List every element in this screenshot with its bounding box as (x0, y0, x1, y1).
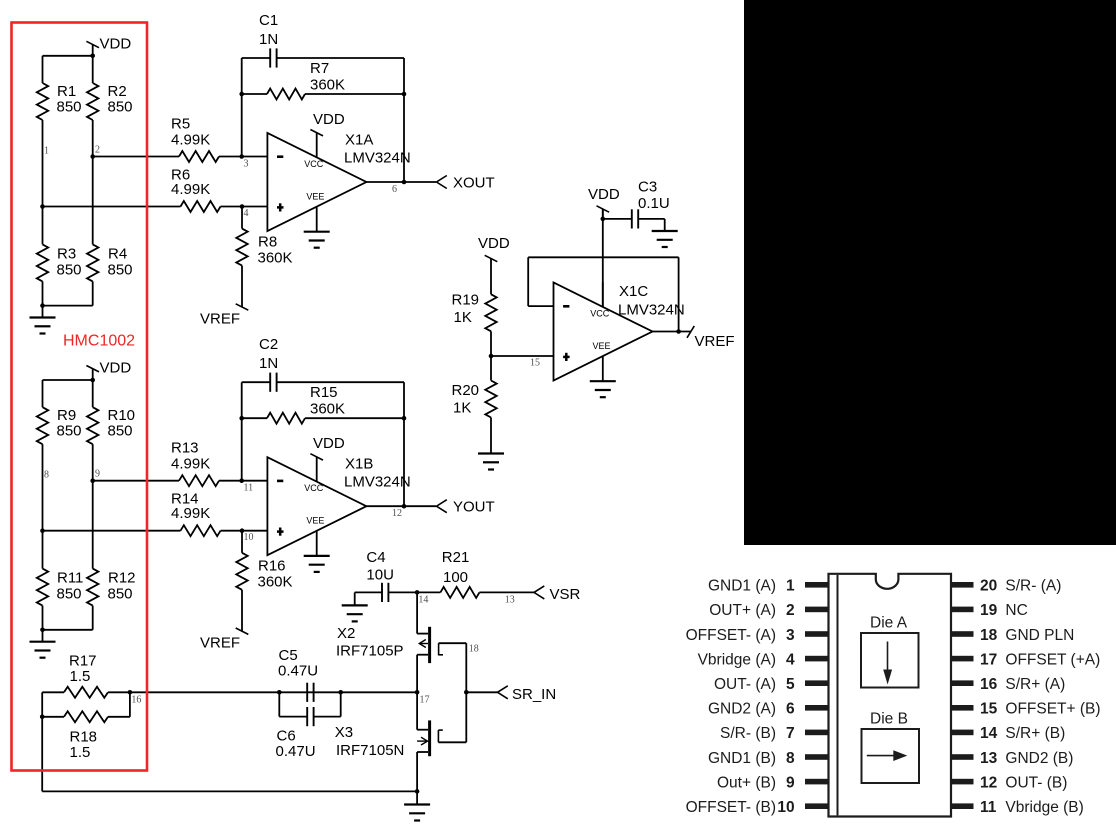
svg-text:9: 9 (786, 774, 795, 791)
svg-text:1K: 1K (453, 400, 471, 417)
svg-text:13: 13 (505, 595, 515, 606)
svg-text:14: 14 (418, 595, 428, 606)
svg-text:LMV324N: LMV324N (344, 474, 411, 491)
svg-text:8: 8 (786, 750, 795, 767)
svg-text:3: 3 (786, 627, 795, 644)
svg-text:5: 5 (786, 676, 795, 693)
svg-text:R12: R12 (108, 570, 136, 587)
svg-text:20: 20 (980, 578, 997, 595)
svg-text:X1B: X1B (345, 456, 373, 473)
svg-text:VREF: VREF (200, 311, 240, 328)
svg-text:4.99K: 4.99K (171, 181, 210, 198)
svg-text:VCC: VCC (304, 483, 324, 493)
svg-text:VEE: VEE (306, 516, 324, 526)
svg-text:15: 15 (980, 701, 998, 718)
svg-text:Out+ (B): Out+ (B) (717, 774, 776, 791)
svg-text:XOUT: XOUT (453, 175, 495, 192)
svg-text:2: 2 (95, 145, 100, 156)
svg-text:1: 1 (44, 146, 49, 157)
svg-text:14: 14 (980, 725, 998, 742)
svg-text:1.5: 1.5 (70, 668, 91, 685)
svg-text:R7: R7 (310, 60, 329, 77)
svg-text:X2: X2 (337, 625, 355, 642)
svg-text:10: 10 (244, 532, 254, 543)
svg-text:S/R+ (A): S/R+ (A) (1005, 676, 1065, 693)
svg-text:VSR: VSR (550, 586, 581, 603)
svg-text:GND1 (A): GND1 (A) (708, 578, 776, 595)
svg-text:11: 11 (244, 483, 254, 494)
svg-text:R10: R10 (108, 407, 136, 424)
svg-text:12: 12 (980, 774, 997, 791)
svg-text:C5: C5 (279, 647, 298, 664)
svg-text:VEE: VEE (593, 341, 611, 351)
svg-text:360K: 360K (310, 77, 345, 94)
svg-text:18: 18 (469, 644, 479, 655)
svg-text:850: 850 (57, 99, 82, 116)
svg-text:19: 19 (980, 602, 998, 619)
svg-text:13: 13 (980, 750, 998, 767)
svg-text:17: 17 (980, 651, 997, 668)
svg-text:R9: R9 (57, 407, 76, 424)
svg-text:850: 850 (108, 99, 133, 116)
svg-text:R8: R8 (258, 234, 277, 251)
svg-text:S/R- (B): S/R- (B) (720, 725, 776, 742)
svg-text:6: 6 (392, 184, 397, 195)
svg-text:C1: C1 (259, 12, 278, 29)
svg-text:C2: C2 (259, 336, 278, 353)
svg-text:4.99K: 4.99K (171, 132, 210, 149)
svg-text:GND2 (B): GND2 (B) (1005, 750, 1073, 767)
svg-text:0.47U: 0.47U (276, 743, 316, 760)
svg-text:VDD: VDD (100, 36, 132, 53)
svg-text:4.99K: 4.99K (171, 505, 210, 522)
svg-text:X3: X3 (335, 724, 353, 741)
svg-text:17: 17 (420, 695, 430, 706)
svg-text:0.47U: 0.47U (278, 663, 318, 680)
svg-text:360K: 360K (310, 401, 345, 418)
svg-text:X1A: X1A (345, 132, 373, 149)
svg-text:OUT- (A): OUT- (A) (714, 676, 776, 693)
svg-text:1N: 1N (259, 31, 278, 48)
svg-text:11: 11 (980, 799, 997, 816)
svg-text:R2: R2 (108, 83, 127, 100)
svg-text:C3: C3 (638, 179, 657, 196)
svg-text:1K: 1K (454, 309, 472, 326)
svg-text:100: 100 (443, 569, 468, 586)
svg-text:850: 850 (108, 586, 133, 603)
svg-text:S/R- (A): S/R- (A) (1005, 578, 1061, 595)
svg-text:8: 8 (44, 470, 49, 481)
svg-text:SR_IN: SR_IN (512, 686, 556, 703)
svg-text:R5: R5 (171, 116, 190, 133)
svg-text:OFFSET- (A): OFFSET- (A) (686, 627, 776, 644)
svg-text:R13: R13 (171, 440, 199, 457)
svg-text:850: 850 (57, 262, 82, 279)
svg-text:GND2 (A): GND2 (A) (708, 701, 776, 718)
svg-text:2: 2 (786, 602, 795, 619)
svg-text:IRF7105N: IRF7105N (336, 742, 404, 759)
svg-text:R15: R15 (310, 384, 338, 401)
svg-text:4: 4 (786, 651, 795, 668)
svg-text:R18: R18 (70, 729, 98, 746)
svg-text:850: 850 (57, 586, 82, 603)
svg-text:6: 6 (786, 701, 795, 718)
svg-text:VDD: VDD (313, 111, 345, 128)
svg-text:OFFSET (+A): OFFSET (+A) (1005, 651, 1100, 668)
svg-text:GND1 (B): GND1 (B) (708, 750, 776, 767)
svg-text:Die A: Die A (870, 615, 908, 632)
svg-text:3: 3 (244, 159, 249, 170)
svg-text:OFFSET+ (B): OFFSET+ (B) (1005, 701, 1100, 718)
svg-text:VDD: VDD (588, 186, 620, 203)
svg-text:9: 9 (95, 469, 100, 480)
svg-text:7: 7 (786, 725, 795, 742)
svg-text:R3: R3 (57, 246, 76, 263)
svg-text:GND PLN: GND PLN (1005, 627, 1074, 644)
svg-text:1N: 1N (259, 355, 278, 372)
svg-text:360K: 360K (258, 574, 293, 591)
svg-text:R20: R20 (452, 382, 480, 399)
svg-text:IRF7105P: IRF7105P (336, 643, 404, 660)
svg-text:VCC: VCC (304, 159, 324, 169)
svg-text:LMV324N: LMV324N (344, 150, 411, 167)
svg-text:YOUT: YOUT (453, 499, 495, 516)
svg-text:0.1U: 0.1U (638, 195, 670, 212)
svg-text:R4: R4 (108, 246, 127, 263)
svg-text:R1: R1 (57, 83, 76, 100)
svg-text:VCC: VCC (590, 309, 610, 319)
svg-text:18: 18 (980, 627, 998, 644)
svg-text:VREF: VREF (200, 635, 240, 652)
svg-text:OUT- (B): OUT- (B) (1005, 774, 1067, 791)
svg-text:850: 850 (108, 262, 133, 279)
svg-text:VDD: VDD (313, 435, 345, 452)
svg-text:R11: R11 (57, 570, 83, 587)
svg-text:VREF: VREF (695, 333, 735, 350)
svg-text:LMV324N: LMV324N (618, 302, 685, 319)
svg-text:NC: NC (1005, 602, 1027, 619)
svg-text:Vbridge (B): Vbridge (B) (1005, 799, 1083, 816)
svg-text:R17: R17 (69, 653, 97, 670)
svg-text:C4: C4 (366, 549, 385, 566)
svg-text:VDD: VDD (478, 235, 510, 252)
svg-text:1: 1 (786, 578, 795, 595)
svg-text:C6: C6 (277, 728, 296, 745)
svg-text:10: 10 (777, 799, 794, 816)
svg-text:OFFSET- (B): OFFSET- (B) (686, 799, 776, 816)
svg-text:R19: R19 (452, 292, 480, 309)
svg-text:12: 12 (392, 508, 402, 519)
svg-text:4: 4 (244, 208, 249, 219)
svg-text:15: 15 (530, 357, 540, 368)
svg-text:R16: R16 (258, 558, 286, 575)
svg-text:S/R+ (B): S/R+ (B) (1005, 725, 1065, 742)
svg-text:OUT+ (A): OUT+ (A) (709, 602, 776, 619)
svg-text:VEE: VEE (306, 192, 324, 202)
svg-text:R21: R21 (442, 549, 470, 566)
svg-text:4.99K: 4.99K (171, 456, 210, 473)
svg-text:850: 850 (57, 423, 82, 440)
svg-text:HMC1002: HMC1002 (63, 333, 135, 350)
svg-text:VDD: VDD (100, 360, 132, 377)
svg-text:16: 16 (131, 695, 141, 706)
svg-text:Die B: Die B (870, 711, 908, 728)
svg-text:10U: 10U (366, 567, 394, 584)
svg-text:360K: 360K (258, 250, 293, 267)
svg-text:X1C: X1C (619, 283, 648, 300)
svg-text:Vbridge (A): Vbridge (A) (698, 651, 776, 668)
svg-text:850: 850 (108, 423, 133, 440)
svg-text:16: 16 (980, 676, 998, 693)
svg-text:1.5: 1.5 (70, 744, 91, 761)
